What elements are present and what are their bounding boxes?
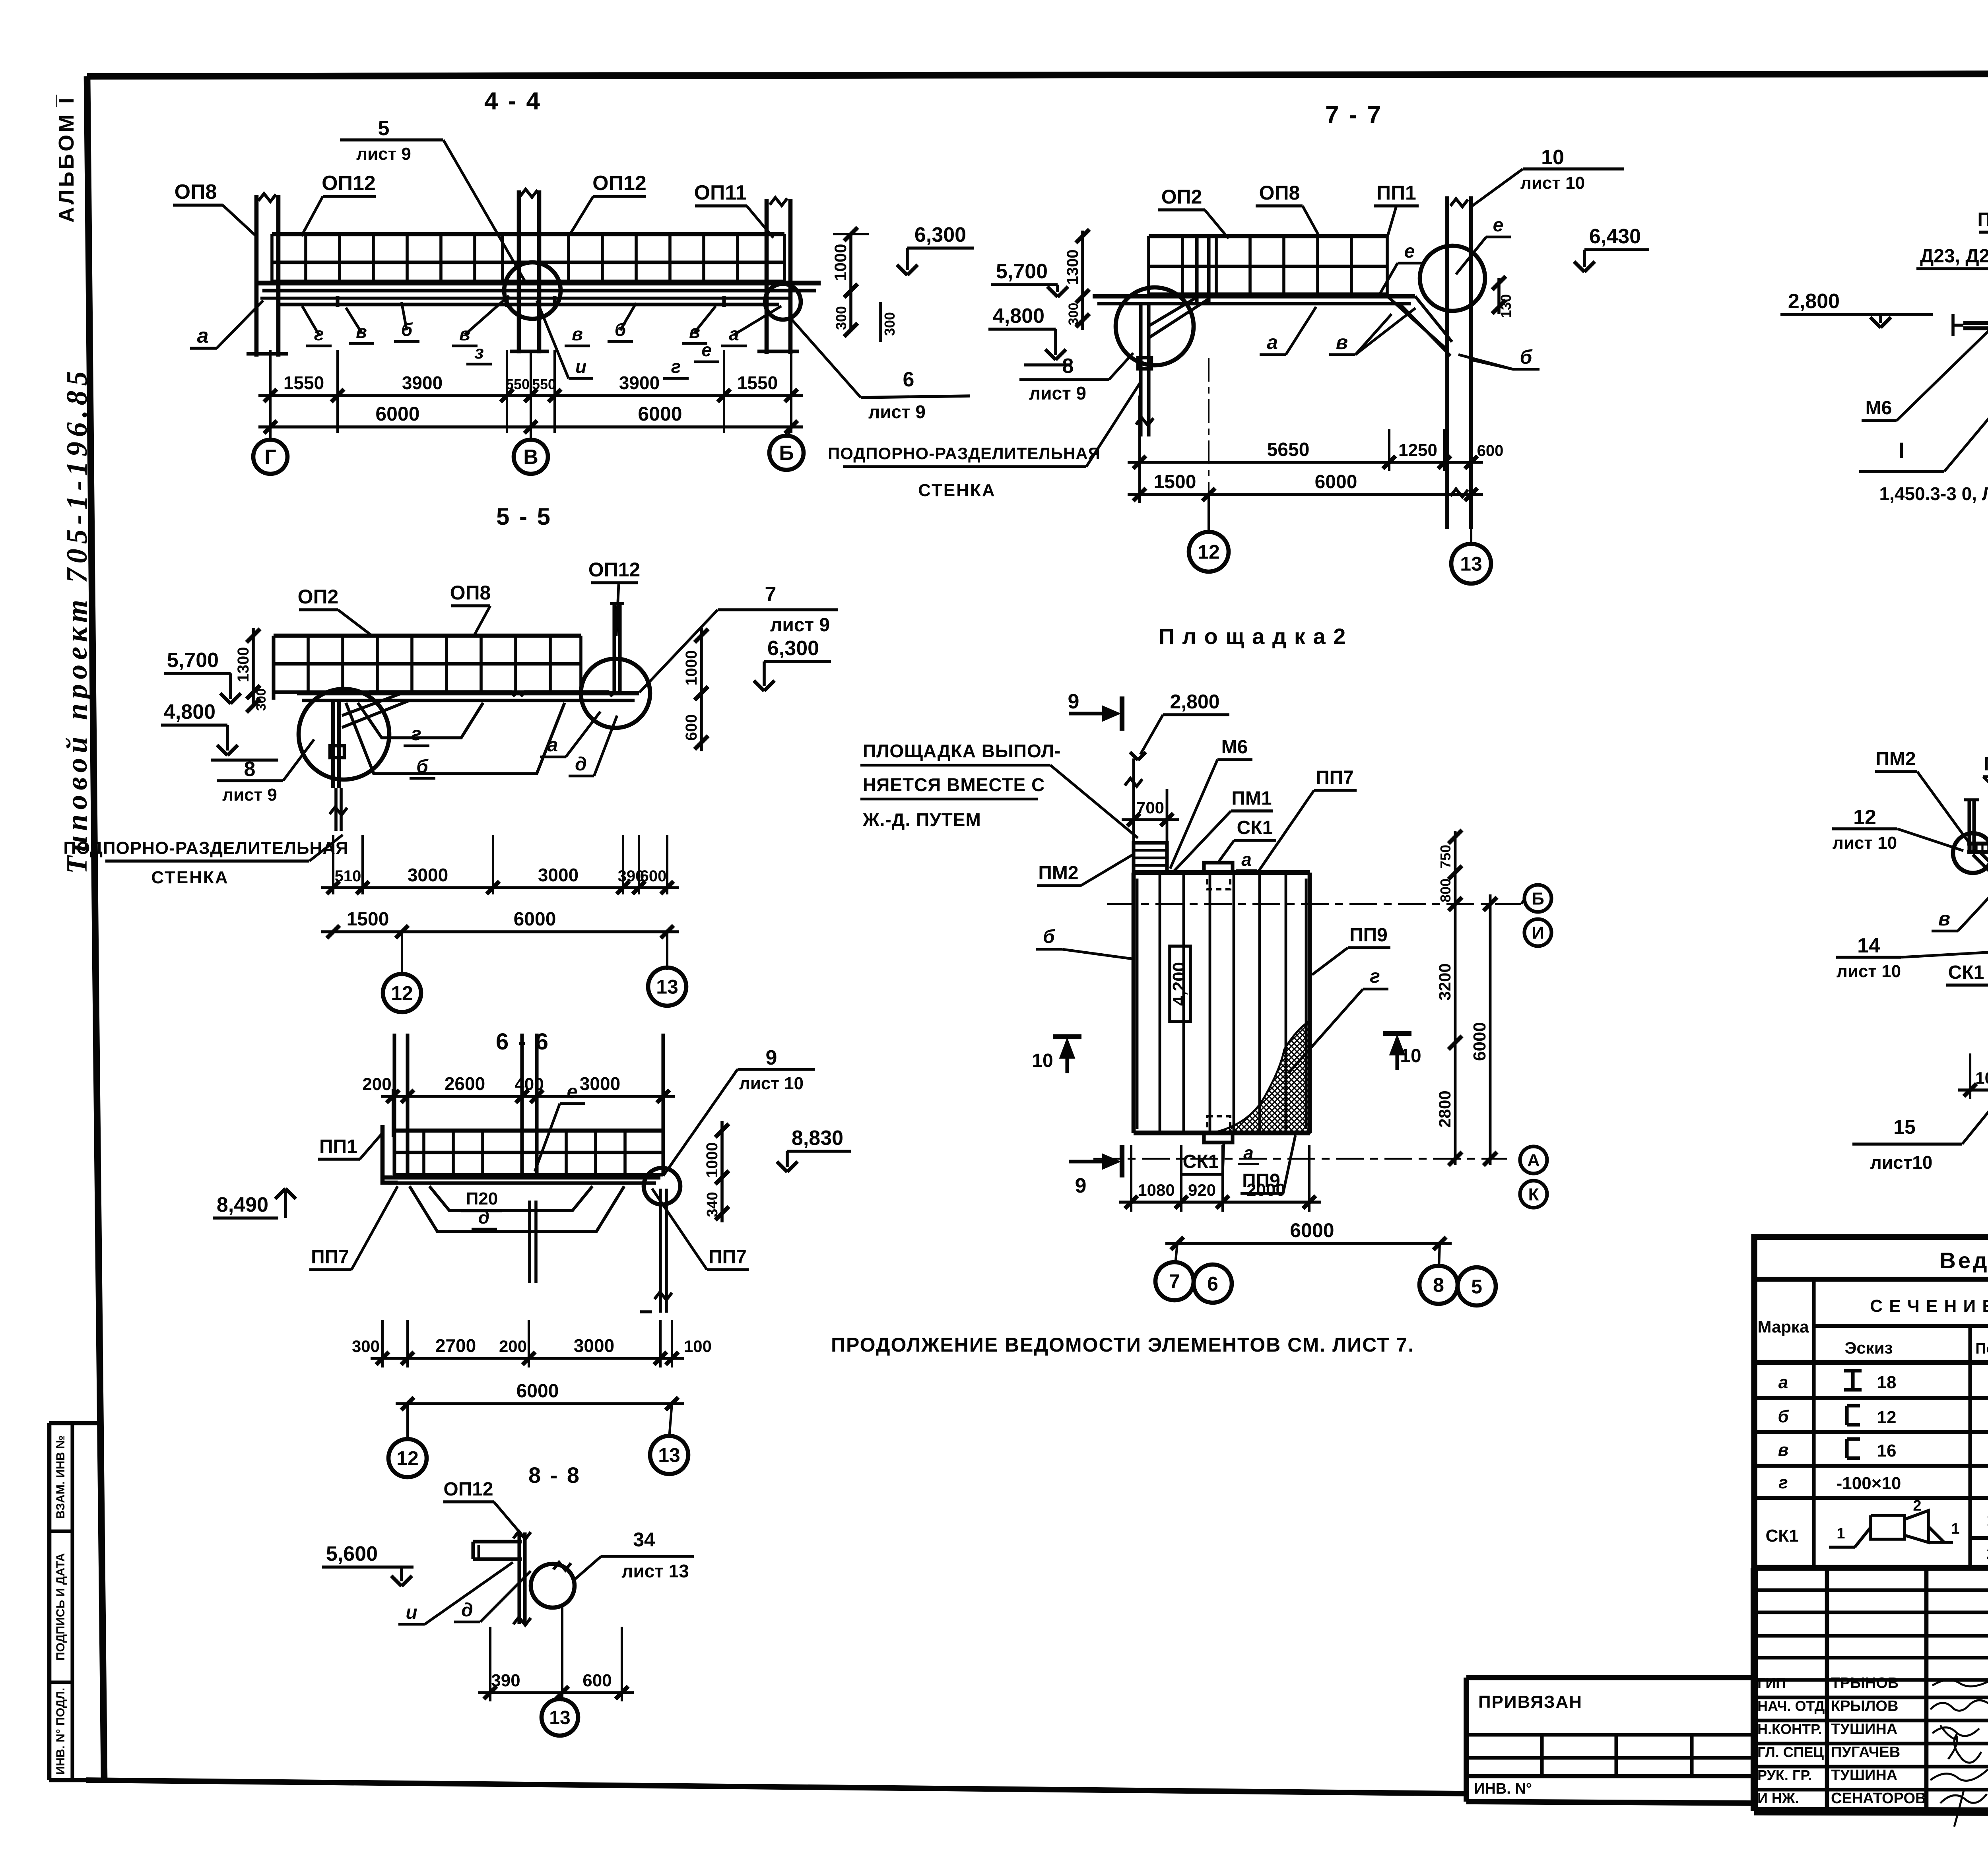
svg-text:е: е [1493, 215, 1504, 236]
element table outer border [1754, 1237, 1988, 1568]
svg-text:2,800: 2,800 [1170, 691, 1219, 713]
left sub columns [1825, 1568, 1829, 1811]
plan dim 6000 [1165, 1242, 1452, 1245]
svg-text:ПП1: ПП1 [1376, 182, 1416, 204]
svg-text:300: 300 [254, 689, 269, 711]
svg-text:КРЫЛОВ: КРЫЛОВ [1831, 1698, 1898, 1715]
axis circle 13 of 8-8 [560, 1693, 562, 1701]
section 6-6 extension lines bottom [381, 1320, 384, 1367]
axis circle 13 of 5-5 [666, 932, 668, 970]
section 6-6 top dims 200 2600 400 3000 [392, 1089, 394, 1137]
svg-text:Поз.: Поз. [1975, 1340, 1988, 1357]
column ОП8 on axis Г [254, 195, 259, 357]
table row lines [1754, 1396, 1988, 1400]
svg-text:Типовой проект 705-1-196.85: Типовой проект 705-1-196.85 [61, 367, 93, 874]
svg-text:ОП2: ОП2 [298, 586, 339, 608]
section 4-4 railing bottom rail [272, 279, 784, 283]
svg-text:6000: 6000 [375, 403, 419, 425]
svg-text:6000: 6000 [1290, 1219, 1334, 1241]
svg-text:1300: 1300 [235, 647, 252, 683]
svg-text:300: 300 [352, 1337, 380, 1356]
svg-text:б: б [1778, 1407, 1789, 1426]
svg-text:а: а [1243, 1142, 1254, 1163]
svg-text:13: 13 [656, 976, 678, 998]
axis circles 8 5 plan [1439, 1243, 1440, 1267]
svg-text:12: 12 [1853, 806, 1876, 829]
svg-text:ПП7: ПП7 [311, 1247, 349, 1268]
svg-text:ПП9: ПП9 [1349, 925, 1388, 946]
svg-text:лист 10: лист 10 [739, 1074, 804, 1093]
section 4-4 lower beams [260, 297, 791, 300]
axis circle 12 of 5-5 [401, 932, 403, 976]
svg-text:Г: Г [264, 446, 276, 469]
svg-text:1: 1 [1837, 1525, 1845, 1542]
svg-text:300: 300 [1066, 303, 1081, 326]
section 7-7 railing band [1149, 234, 1387, 239]
detail circle at axis Б joint [765, 284, 801, 320]
axis circles Б И plan [1524, 885, 1551, 912]
svg-text:в: в [1778, 1440, 1789, 1460]
axis circle 12 of 7-7 [1208, 495, 1210, 532]
section 4-4 extension lines [269, 350, 272, 433]
section 4-4 dimension line 6000 6000 [258, 425, 803, 429]
svg-text:3200: 3200 [1435, 963, 1454, 1000]
section 5-5 dims 510 3000 3000 390 600 [321, 886, 679, 889]
svg-text:в: в [572, 324, 583, 344]
svg-text:15: 15 [1893, 1116, 1916, 1138]
svg-text:13: 13 [549, 1707, 570, 1728]
svg-text:3000: 3000 [580, 1073, 620, 1094]
svg-text:6,430: 6,430 [1589, 225, 1641, 248]
svg-text:8: 8 [244, 758, 256, 781]
svg-text:9: 9 [766, 1046, 777, 1069]
svg-text:14: 14 [1857, 934, 1880, 957]
column ОП12 5-5 [612, 603, 616, 693]
svg-text:Ведомость Элементов к пл: Ведомость Элементов к площадке 2 [1939, 1248, 1988, 1273]
svg-text:г: г [1370, 966, 1380, 987]
svg-text:5650: 5650 [1267, 439, 1310, 460]
section 7-7 right column [1445, 196, 1449, 529]
svg-text:300: 300 [833, 306, 849, 330]
svg-text:Б: Б [1532, 889, 1544, 908]
plan stair ext lines and dim 700 [1132, 758, 1135, 843]
section 4-4 deck beam [254, 281, 821, 285]
axis line to circle В [530, 427, 532, 440]
svg-text:ПРИВЯЗАН: ПРИВЯЗАН [1478, 1692, 1582, 1712]
svg-text:2: 2 [1913, 1497, 1921, 1514]
привязан block outer [1466, 1675, 1754, 1680]
section 6-6 lower trapezoid д [410, 1186, 624, 1232]
svg-text:б: б [1043, 926, 1055, 947]
svg-text:6,300: 6,300 [914, 223, 966, 246]
plan СК1 cap bottom [1207, 1116, 1230, 1132]
svg-text:1080: 1080 [1138, 1181, 1175, 1199]
svg-text:М6: М6 [1866, 398, 1892, 419]
svg-text:1500: 1500 [347, 909, 389, 930]
right vertical dims 1000 600 section 5-5 [700, 628, 703, 751]
svg-text:СТЕНКА: СТЕНКА [918, 481, 996, 500]
svg-text:4,800: 4,800 [164, 700, 215, 723]
dim 130 7-7 [1497, 278, 1501, 314]
svg-text:7 - 7: 7 - 7 [1325, 101, 1382, 129]
svg-text:I: I [1898, 438, 1905, 463]
svg-text:лист 9: лист 9 [1029, 383, 1086, 403]
svg-text:б: б [416, 756, 429, 777]
svg-text:Б: Б [779, 442, 794, 465]
section 6-6 mid column lines [520, 1034, 524, 1175]
svg-text:Эскиз: Эскиз [1845, 1338, 1893, 1357]
section 6-6 left column lines [392, 1034, 396, 1175]
svg-text:100: 100 [684, 1337, 712, 1356]
svg-text:И НЖ.: И НЖ. [1757, 1790, 1799, 1806]
svg-text:1: 1 [1951, 1521, 1959, 1537]
section 6-6 deck [382, 1175, 660, 1180]
axis circles А К plan [1520, 1146, 1547, 1173]
svg-text:1000: 1000 [831, 244, 850, 281]
axis line to circle Б [788, 427, 791, 436]
svg-text:ПОДПОРНО-РАЗДЕЛИТЕЛЬНАЯ: ПОДПОРНО-РАЗДЕЛИТЕЛЬНАЯ [828, 444, 1101, 463]
svg-text:ПМ1: ПМ1 [1231, 788, 1272, 809]
svg-text:6000: 6000 [638, 403, 682, 425]
svg-text:лист 9: лист 9 [770, 615, 830, 636]
section 5-5 retaining wall [331, 700, 335, 788]
svg-text:5 - 5: 5 - 5 [496, 503, 552, 530]
svg-text:НАЧ. ОТД.: НАЧ. ОТД. [1757, 1698, 1829, 1714]
svg-text:НЯЕТСЯ ВМЕСТЕ С: НЯЕТСЯ ВМЕСТЕ С [863, 774, 1045, 795]
section 10-10 ext lines bottom [1969, 1053, 1971, 1099]
svg-text:1000: 1000 [703, 1142, 721, 1178]
table column lines [1812, 1279, 1815, 1568]
svg-text:лист 13: лист 13 [621, 1561, 689, 1581]
svg-text:9: 9 [1075, 1174, 1087, 1197]
svg-text:4,200: 4,200 [1169, 962, 1189, 1006]
svg-text:3900: 3900 [619, 372, 660, 393]
section 10-10 diagonal brace [1973, 855, 1988, 927]
section 7-7 wall brace [1149, 297, 1197, 326]
vertical dims 1300 300 7-7 [1081, 231, 1084, 330]
svg-text:1300: 1300 [1064, 250, 1081, 285]
svg-text:12: 12 [1198, 541, 1220, 563]
svg-text:750: 750 [1437, 845, 1454, 869]
svg-text:д: д [575, 754, 587, 775]
svg-text:2,800: 2,800 [1788, 290, 1840, 313]
svg-text:лист 10: лист 10 [1837, 962, 1901, 981]
svg-text:ОП12: ОП12 [322, 172, 376, 195]
section 5-5 trapezoid beam г [358, 703, 483, 738]
svg-text:920: 920 [1188, 1181, 1216, 1199]
plan СК1 cap top [1204, 863, 1233, 873]
svg-text:И: И [1532, 923, 1544, 943]
svg-text:ОП12: ОП12 [588, 559, 640, 581]
svg-text:4 - 4: 4 - 4 [484, 87, 542, 115]
привязан block columns [1540, 1735, 1543, 1776]
svg-text:лист 10: лист 10 [1833, 833, 1897, 853]
svg-text:ОП8: ОП8 [175, 180, 217, 204]
svg-text:13: 13 [658, 1444, 680, 1466]
svg-text:ОП11: ОП11 [694, 181, 747, 204]
svg-text:ТРЫНОВ: ТРЫНОВ [1831, 1675, 1899, 1691]
svg-text:2700: 2700 [435, 1335, 476, 1356]
section 6-6 dims 300 2700 200 3000 100 [371, 1357, 684, 1360]
plan bottom ext lines [1130, 1145, 1132, 1212]
left sub rows [1754, 1588, 1988, 1592]
svg-text:ГИП: ГИП [1757, 1675, 1786, 1691]
detail circle left section 5-5 [299, 689, 389, 780]
svg-text:РУК. ГР.: РУК. ГР. [1757, 1767, 1812, 1783]
section 4-4 railing posts [270, 234, 274, 281]
axis circle 13 of 7-7 [1470, 521, 1472, 544]
svg-text:лист 9: лист 9 [222, 785, 277, 805]
svg-text:СК1: СК1 [1237, 817, 1273, 838]
section 5-5 wall bracket [342, 693, 402, 716]
svg-text:ОП8: ОП8 [1259, 182, 1300, 204]
svg-text:ПП7: ПП7 [1316, 767, 1354, 788]
section 7-7 deck [1093, 294, 1415, 298]
section 7-7 right braces [1387, 296, 1447, 350]
svg-text:г: г [411, 723, 421, 745]
svg-text:1250: 1250 [1398, 440, 1437, 460]
svg-text:8 - 8: 8 - 8 [528, 1462, 581, 1488]
svg-text:34: 34 [633, 1528, 655, 1551]
svg-text:б: б [1520, 346, 1533, 368]
svg-text:5,700: 5,700 [996, 260, 1048, 283]
svg-text:ПМ2: ПМ2 [1875, 749, 1916, 770]
svg-text:ВЗАМ. ИНВ №: ВЗАМ. ИНВ № [54, 1435, 67, 1519]
svg-text:8,830: 8,830 [792, 1127, 843, 1150]
svg-text:5,700: 5,700 [167, 649, 219, 672]
svg-text:200: 200 [362, 1075, 391, 1094]
plan axis Б dash-dot [1107, 903, 1521, 905]
svg-text:12: 12 [1877, 1408, 1897, 1427]
привязан block rows [1466, 1733, 1754, 1736]
svg-text:200: 200 [499, 1337, 527, 1356]
section 10-10 deck grating [1967, 842, 1988, 846]
svg-text:а: а [197, 324, 209, 347]
section 6-6 left angle ПП1 [382, 1125, 398, 1183]
svg-text:СЕНАТОРОВ: СЕНАТОРОВ [1831, 1790, 1926, 1807]
section 5-5 railing band [274, 634, 581, 638]
axis line to circle Г [269, 427, 272, 440]
section 7-7 dims 5650 1250 600 [1128, 461, 1483, 464]
svg-text:з: з [474, 342, 483, 363]
svg-text:6: 6 [1207, 1273, 1218, 1295]
plan dims 1080 920 2000 [1119, 1201, 1321, 1204]
section 7-7 ext lines bottom [1138, 396, 1141, 503]
svg-text:1: 1 [1986, 1511, 1988, 1529]
svg-text:600: 600 [582, 1671, 612, 1690]
svg-text:600: 600 [1477, 442, 1504, 460]
svg-text:8: 8 [1062, 355, 1074, 378]
column ОП11 on axis Б [765, 199, 769, 354]
svg-text:1,450.3-3 0, Л-13: 1,450.3-3 0, Л-13 [1879, 483, 1988, 504]
svg-text:9: 9 [1068, 690, 1079, 713]
svg-text:ПРОДОЛЖЕНИЕ ВЕДОМОСТИ ЭЛЕМЕНТО: ПРОДОЛЖЕНИЕ ВЕДОМОСТИ ЭЛЕМЕНТОВ СМ. ЛИСТ… [831, 1334, 1414, 1356]
svg-text:130: 130 [1498, 294, 1514, 318]
svg-text:8,490: 8,490 [217, 1193, 268, 1216]
svg-text:ОП12: ОП12 [592, 172, 646, 195]
svg-text:М6: М6 [1221, 737, 1248, 758]
section 8-8 bracket channel [473, 1540, 522, 1543]
svg-text:лист 9: лист 9 [868, 402, 926, 422]
section 6-6 right line [661, 1034, 665, 1175]
svg-text:1550: 1550 [737, 372, 778, 393]
svg-text:3000: 3000 [408, 865, 448, 885]
section 7-7 inner column pair [1195, 236, 1198, 302]
svg-text:1000: 1000 [683, 650, 700, 686]
section 8-8 ext lines [489, 1627, 491, 1701]
section 4-4 railing top rail [272, 232, 784, 237]
svg-text:ПМ1, ПМ2: ПМ1, ПМ2 [1977, 209, 1988, 230]
plan boxed level 4.200 [1170, 946, 1190, 1022]
axis circle Б [769, 436, 804, 470]
plan axis А dash-dot [1093, 1158, 1507, 1160]
svg-text:в: в [1336, 331, 1348, 353]
right vertical dims 1000 340 6-6 [720, 1121, 724, 1222]
svg-text:лист10: лист10 [1870, 1152, 1933, 1173]
section 8-8 column [517, 1532, 521, 1624]
svg-text:6000: 6000 [514, 909, 556, 930]
detail circle at axis В joint [504, 262, 561, 319]
axis circle 12 of 6-6 [406, 1404, 409, 1441]
page frame border [87, 73, 1988, 76]
svg-text:Н.КОНТР.: Н.КОНТР. [1757, 1721, 1822, 1737]
svg-text:510: 510 [335, 867, 361, 885]
svg-text:Марка: Марка [1758, 1317, 1809, 1336]
svg-text:ПМ2: ПМ2 [1038, 863, 1078, 884]
svg-text:а: а [547, 735, 558, 756]
svg-text:ОП2: ОП2 [1161, 186, 1202, 208]
svg-text:ПП7: ПП7 [709, 1247, 747, 1268]
section 8-8 detail circle [531, 1564, 575, 1608]
svg-text:550: 550 [532, 376, 556, 392]
section 8-8 dims 390 600 [478, 1691, 634, 1694]
frame bottom line [86, 1780, 1466, 1794]
svg-text:ПУГАЧЕВ: ПУГАЧЕВ [1831, 1744, 1900, 1761]
svg-text:в: в [1938, 908, 1950, 930]
svg-text:ТУШИНА: ТУШИНА [1831, 1767, 1897, 1784]
svg-text:е: е [567, 1081, 578, 1102]
svg-text:ПЛОЩАДКА ВЫПОЛ-: ПЛОЩАДКА ВЫПОЛ- [863, 741, 1061, 761]
svg-text:1080: 1080 [1975, 1069, 1988, 1087]
detail circle right 7-7 [1420, 246, 1485, 311]
svg-text:7: 7 [765, 583, 777, 606]
svg-text:12: 12 [396, 1447, 419, 1470]
svg-text:1550: 1550 [283, 372, 324, 393]
svg-text:16: 16 [1877, 1441, 1897, 1461]
svg-text:5,600: 5,600 [326, 1542, 378, 1565]
svg-text:К: К [1528, 1185, 1539, 1204]
svg-text:АЛЬБОМ I̅: АЛЬБОМ I̅ [54, 95, 78, 223]
svg-text:2: 2 [1986, 1544, 1988, 1563]
right vertical dim 1000 [849, 234, 852, 291]
svg-text:8: 8 [1433, 1274, 1444, 1296]
section 7-7 dims 1500 6000 [1128, 493, 1483, 496]
section 5-5 deck channels [366, 692, 515, 696]
svg-text:д: д [461, 1600, 473, 1621]
svg-text:2800: 2800 [1435, 1090, 1454, 1127]
detail circle right section 5-5 [581, 659, 650, 728]
section 10-10 dims 1080 920 2000 [1958, 1088, 1988, 1092]
svg-text:340: 340 [704, 1192, 721, 1217]
svg-text:ОП8: ОП8 [450, 582, 491, 604]
svg-text:ИНВ. N° ПОДЛ.: ИНВ. N° ПОДЛ. [54, 1688, 67, 1775]
svg-text:390: 390 [491, 1671, 520, 1690]
svg-text:СТЕНКА: СТЕНКА [151, 868, 229, 887]
svg-text:10: 10 [1032, 1050, 1053, 1071]
axis circle Г [253, 440, 287, 474]
svg-text:ТУШИНА: ТУШИНА [1831, 1721, 1897, 1738]
detail circle 6-6 right [644, 1168, 680, 1205]
plan outline [1134, 870, 1310, 875]
section 6-6 hanging walls [528, 1201, 531, 1283]
section 6-6 dim 6000 [396, 1402, 684, 1405]
svg-text:ПОДПОРНО-РАЗДЕЛИТЕЛЬНАЯ: ПОДПОРНО-РАЗДЕЛИТЕЛЬНАЯ [63, 838, 348, 858]
left vertical dims 1300 300 section 5-5 [252, 628, 255, 706]
section 6-6 lower trapezoid П20 [429, 1186, 592, 1210]
svg-text:г: г [671, 356, 681, 377]
svg-text:300: 300 [881, 312, 898, 336]
svg-text:-100×10: -100×10 [1837, 1474, 1901, 1493]
svg-text:ГЛ. СПЕЦ.: ГЛ. СПЕЦ. [1757, 1744, 1828, 1760]
section 4-4 dimension line 1550 3900 550 550 3900 1550 [258, 394, 803, 397]
svg-text:Ж.-Д. ПУТЕМ: Ж.-Д. ПУТЕМ [862, 809, 981, 830]
column on axis В [517, 190, 521, 353]
svg-text:а: а [1267, 331, 1278, 353]
svg-text:3000: 3000 [574, 1335, 614, 1356]
svg-text:ПОДПИСЬ И ДАТА: ПОДПИСЬ И ДАТА [54, 1553, 67, 1660]
center axis dashdot 7-7 [1208, 358, 1209, 531]
plan inner beam lines [1159, 873, 1161, 1133]
svg-text:В: В [523, 446, 538, 469]
svg-text:400: 400 [514, 1075, 544, 1094]
svg-text:3000: 3000 [538, 865, 579, 885]
svg-text:а: а [1241, 849, 1252, 870]
svg-text:г: г [1778, 1473, 1788, 1492]
axis circles 7 6 plan [1175, 1243, 1177, 1264]
section 5-5 deck [297, 691, 639, 696]
signature rows [1754, 1695, 1988, 1699]
svg-text:10: 10 [1400, 1045, 1421, 1067]
plan right vertical dims 750 800 3200 2800 [1454, 831, 1457, 1165]
svg-text:П20: П20 [466, 1189, 498, 1208]
svg-text:10: 10 [1541, 146, 1564, 169]
svg-text:6000: 6000 [1470, 1022, 1489, 1061]
svg-text:550: 550 [506, 376, 530, 392]
detail circles 10-10 [1953, 833, 1988, 873]
stamp box column [47, 1423, 52, 1780]
svg-text:лист 9: лист 9 [356, 144, 411, 164]
detail circle left 7-7 [1116, 287, 1194, 365]
svg-text:3900: 3900 [402, 372, 443, 393]
section 10-10 left edge post [1967, 800, 1971, 850]
section 4-4 railing mid rail [272, 260, 784, 264]
svg-text:СК1: СК1 [1183, 1151, 1219, 1172]
axis circle 13 of 6-6 [669, 1404, 672, 1438]
right vertical dims 300 300 [849, 291, 852, 330]
svg-text:СК1: СК1 [1765, 1526, 1798, 1546]
svg-text:е: е [1404, 241, 1415, 262]
svg-text:7: 7 [1169, 1270, 1180, 1293]
svg-text:Д23, Д24: Д23, Д24 [1920, 246, 1988, 267]
svg-text:лист 10: лист 10 [1520, 173, 1585, 193]
svg-text:600: 600 [640, 867, 667, 885]
section 5-5 extension lines [332, 835, 334, 894]
svg-text:ОП12: ОП12 [443, 1479, 493, 1500]
svg-text:П л о щ а д к а 2: П л о щ а д к а 2 [1159, 624, 1347, 649]
ref 6 лист 9 on 4-4 [790, 318, 861, 398]
section 5-5 wall post left [272, 636, 275, 700]
svg-text:а: а [1778, 1373, 1788, 1392]
